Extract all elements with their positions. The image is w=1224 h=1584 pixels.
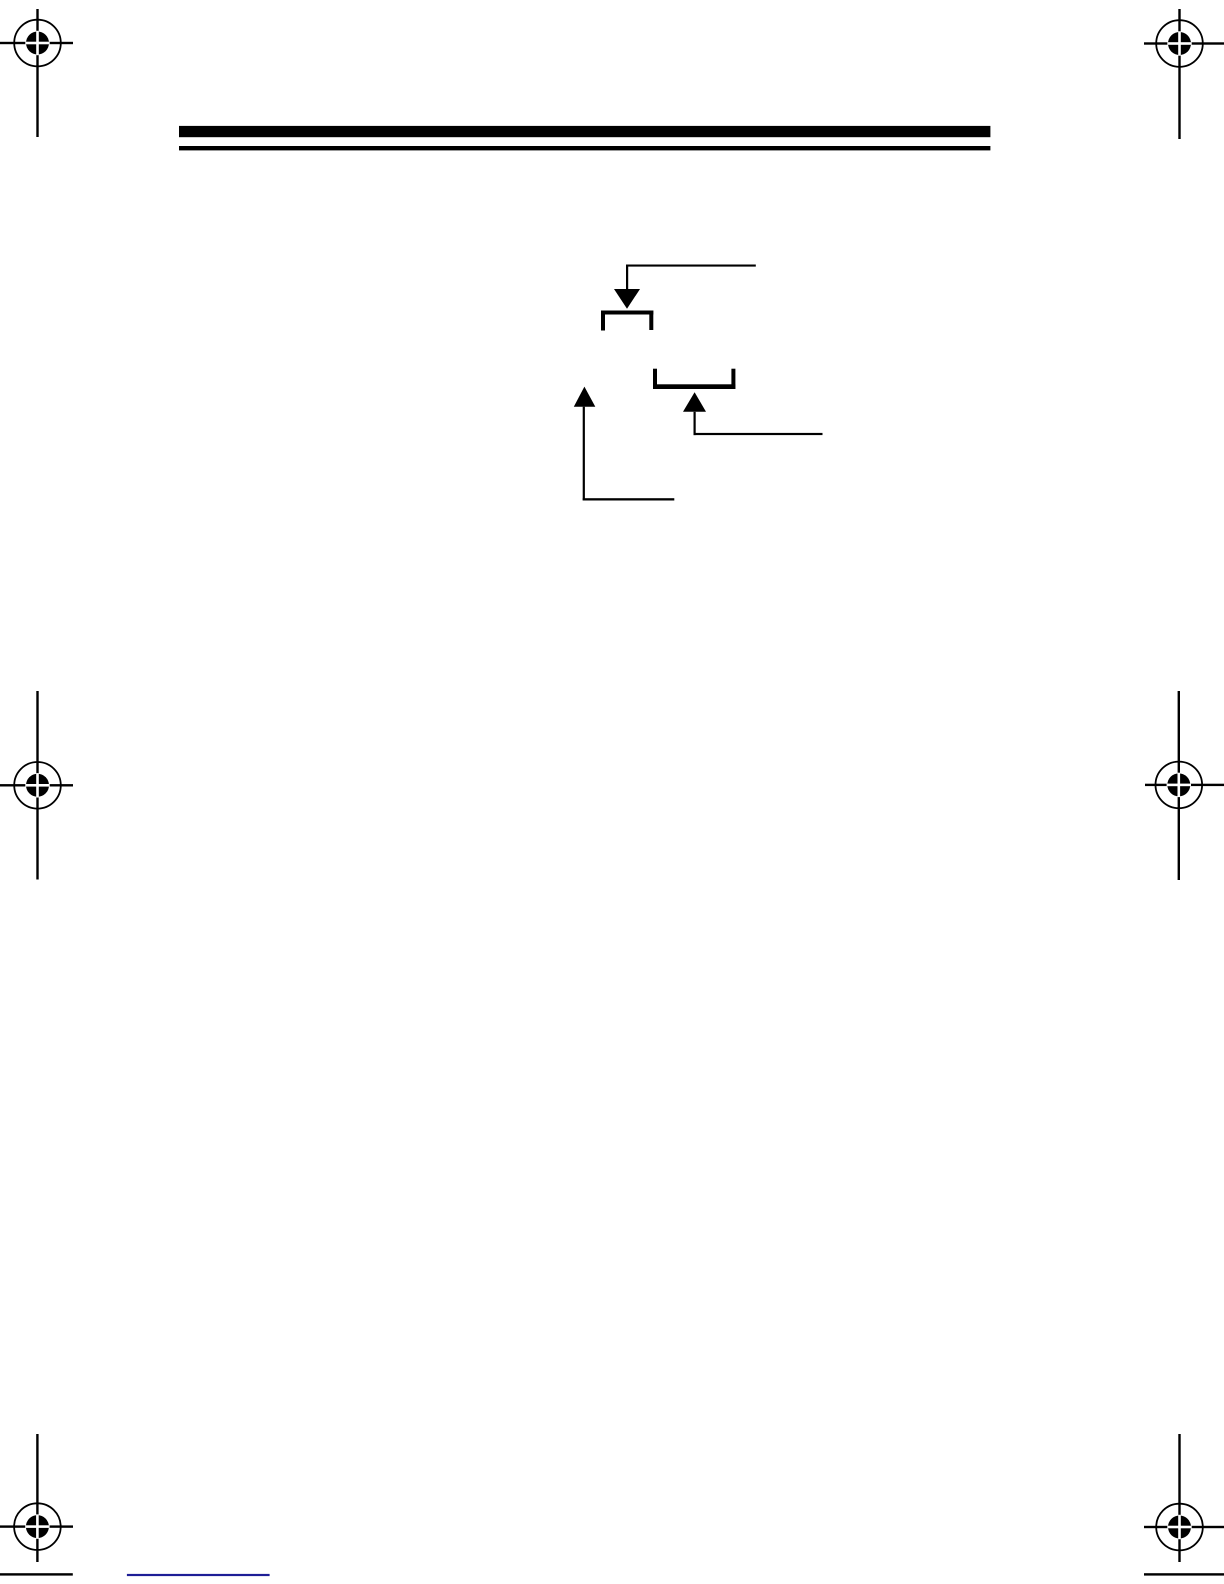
registration mark top-left (0, 9, 73, 137)
arrowhead down (614, 289, 640, 309)
callout wire left vertical (583, 407, 585, 501)
double rule thin bar (179, 146, 990, 150)
double rule thick bar (179, 126, 990, 137)
bracket over-brace (601, 311, 653, 331)
footer trim line bottom-right (1144, 1573, 1224, 1575)
registration mark bottom-left (0, 1434, 73, 1562)
bracket under-brace (653, 369, 735, 389)
callout wire top horizontal (626, 265, 756, 267)
arrowhead up left (574, 387, 596, 407)
callout wire center horizontal (694, 433, 823, 435)
registration mark bottom-right (1144, 1434, 1224, 1562)
registration mark middle-left (0, 691, 73, 880)
callout wire left horizontal (583, 498, 675, 500)
footer trim line bottom-left (0, 1573, 73, 1575)
registration mark top-right (1144, 9, 1224, 139)
arrowhead up center (683, 392, 706, 412)
footer link underline (blue) (127, 1574, 270, 1576)
callout wire top vertical drop (626, 265, 628, 290)
callout wire center vertical (694, 412, 696, 435)
registration mark middle-right (1145, 691, 1224, 880)
